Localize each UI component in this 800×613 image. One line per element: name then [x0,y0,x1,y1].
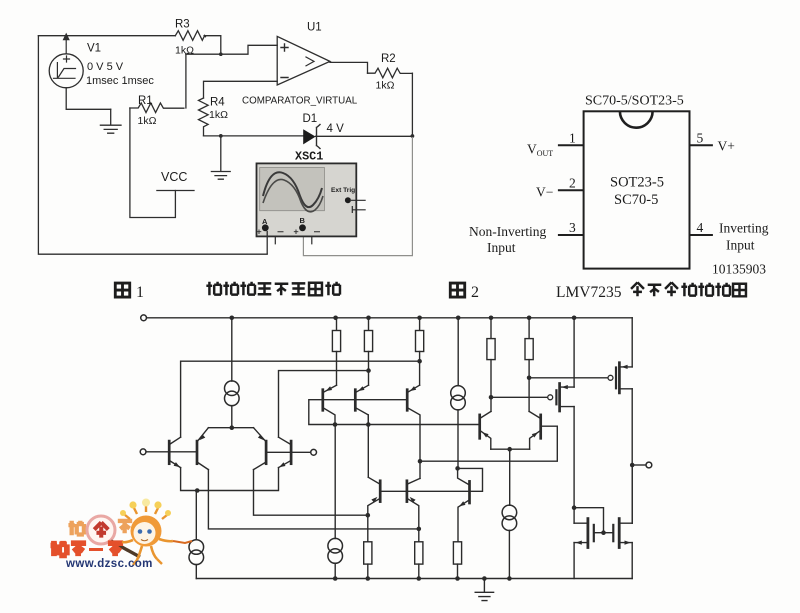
caption 图2 [450,283,464,297]
voltage source V1 [49,54,83,88]
wire Q4 collector to node R-b [279,371,369,438]
svg-text:Ext Trig: Ext Trig [331,187,355,194]
wire scope channel B feedback (faint) [303,137,412,256]
nmos M4 channel [618,519,621,548]
wire collector rail y425 [335,424,480,426]
svg-text:1kΩ: 1kΩ [209,109,228,121]
pmos M1 channel [558,384,561,412]
input transistor Q1 [168,441,171,464]
watermark logo dzsc [51,499,192,571]
svg-text:XSC1: XSC1 [295,150,323,164]
scope terminal B [299,224,306,231]
resistor R4 [199,98,209,136]
svg-text:LMV7235: LMV7235 [556,284,622,301]
svg-text:1: 1 [136,284,144,301]
wire top rail V1 to R3 to corner [38,36,220,55]
input terminal IN- (left) [140,449,146,455]
svg-text:2: 2 [471,284,479,301]
wire M2 source to rail [631,318,633,367]
svg-text:1kΩ: 1kΩ [376,80,395,92]
chip body [584,111,690,268]
labels figure 1 [86,19,396,185]
wire Q2 collector run [208,470,418,529]
wire R1 right up to plus node [185,54,187,108]
wire mirror base rail [323,399,407,401]
wire right input bases [266,451,311,453]
wire plus input node [186,45,277,54]
wire Q3 collector run [254,470,368,516]
mirror transistor Q6 [354,390,357,411]
svg-text:SOT23-5: SOT23-5 [610,175,664,191]
wire M4 source to ground rail [631,543,633,579]
svg-text:U1: U1 [307,22,322,34]
wire M2 drain to output [631,389,633,523]
svg-text:D1: D1 [303,113,318,125]
scope terminal Ext [345,197,351,203]
mirror transistor Q5 (diode connected) [321,390,324,411]
resistor load R-d [490,318,492,339]
wire left outer loop [38,36,267,255]
bias transistor Q10 (diode connected) [468,481,471,503]
wire Q5 base bracket [309,400,335,425]
svg-text:B: B [300,216,306,225]
resistor R2 [368,68,413,78]
input transistor Q4 [290,441,293,464]
wire minus input [204,81,278,98]
svg-text:COMPARATOR_VIRTUAL: COMPARATOR_VIRTUAL [242,96,358,107]
svg-text:V−: V− [536,185,553,200]
svg-text:Inverting: Inverting [719,221,769,236]
pnp pair Q11 [478,415,481,438]
current source I1 (input tail) [231,318,233,381]
svg-text:SC70-5/SOT23-5: SC70-5/SOT23-5 [585,94,684,109]
svg-text:1kΩ: 1kΩ [138,115,157,127]
wire input-pair common emitter node [208,427,253,429]
svg-text:1: 1 [569,131,576,146]
resistor load R-b [368,318,370,331]
emitter resistor R-h [453,542,461,564]
ground under R4 rail [211,136,230,179]
input terminal IN+ (right) [311,449,317,455]
oscilloscope XSC1 [257,163,366,254]
watermark placeholder [51,499,192,571]
pmos M2 channel [618,363,621,393]
svg-text:1msec 1msec: 1msec 1msec [86,75,154,87]
notch [620,111,653,127]
svg-text:3: 3 [569,220,576,235]
wire R2 right down to D1 cathode node [411,73,413,136]
cascode transistor Q8 [379,481,382,502]
pin 5 [690,144,713,146]
output terminal [632,464,646,466]
pnp pair Q12 [539,415,542,438]
pmos M2 gate [608,375,613,380]
wire gate line M2 [529,377,608,379]
input transistor Q3 [265,441,268,464]
captions row placeholder [115,282,746,301]
caption 复位信号产生电路 [206,282,340,296]
wire op-amp output to R2 [330,62,368,73]
resistor load R-a [336,318,338,331]
nmos M4 gate [612,525,614,541]
input terminal (top supply V+) [141,315,147,321]
svg-text:Input: Input [726,238,755,253]
svg-text:2: 2 [569,176,576,191]
svg-text:R4: R4 [210,97,225,109]
svg-text:V+: V+ [718,139,735,154]
emitter resistor R-f [364,542,372,564]
nmos M3 gate [593,525,595,541]
svg-text:R2: R2 [381,53,396,65]
resistor load R-c [419,318,421,331]
svg-text:1kΩ: 1kΩ [175,45,194,57]
nmos M3 channel [587,519,590,548]
ground [475,579,493,601]
svg-text:10135903: 10135903 [712,262,766,277]
wire Q1 collector to node R-c [181,361,420,437]
wire Q6 collector down [367,415,369,477]
mirror transistor Q7 [406,390,409,411]
pin 3 [558,234,584,236]
VCC supply symbol [157,190,194,192]
wire M3 source to ground rail [573,543,575,579]
wire R4 bottom rail to D1 [204,135,304,137]
wire M4 drain up [631,465,633,523]
svg-text:Input: Input [487,240,516,255]
emitter resistor R-g [415,542,423,564]
wire pnp common emitter [491,448,530,450]
resistor R3 [175,31,205,41]
resistor R1 [130,103,184,113]
svg-text:0 V 5 V: 0 V 5 V [87,61,124,73]
wire V1 bottom to ground [66,88,111,110]
caption 图1 [115,283,129,297]
svg-text:4 V: 4 V [327,123,345,135]
wire scope A to bottom rail [266,231,268,254]
svg-text:SC70-5: SC70-5 [614,192,658,208]
pin 1 [558,144,584,146]
svg-text:5: 5 [697,131,704,146]
scope terminal A [262,224,269,231]
cascode transistor Q9 [406,481,409,502]
op-amp U1 [277,36,330,85]
input transistor Q2 [196,441,199,464]
wire ground rail (bottom) [196,578,632,580]
wire R1 left to VCC loop [130,108,176,218]
wire top V+ rail [147,317,633,319]
wire gate line M1 [491,396,548,398]
svg-text:4: 4 [697,220,704,235]
diode D1 zener [316,135,413,137]
svg-text:R1: R1 [138,95,153,107]
ground under V1 [100,109,121,133]
node junction V1 top [65,36,67,54]
wire Q12 base bracket [420,426,557,461]
wire cascode base rail [380,468,482,491]
current source I5 (output tail) [509,449,511,505]
resistor load R-e [528,318,530,339]
svg-text:A: A [262,217,268,226]
current source I4 (upper) [457,318,459,386]
pin 2 [558,189,584,191]
wire input emitter rail [181,468,279,491]
pmos M1 gate [548,395,553,400]
wire M1 source to rail [573,318,575,387]
current source I3 (center) [334,425,336,539]
wire left input bases [146,451,197,453]
svg-text:VCC: VCC [161,170,187,184]
current source I2 (left bottom) [195,491,197,540]
pin 4 [690,234,713,236]
svg-text:Non-Inverting: Non-Inverting [469,224,546,239]
wire M3 diode bracket [574,508,603,533]
svg-text:R3: R3 [175,19,190,31]
wire M1 drain down [573,407,575,524]
svg-text:V1: V1 [87,43,101,55]
svg-text:www.dzsc.com: www.dzsc.com [65,558,153,570]
